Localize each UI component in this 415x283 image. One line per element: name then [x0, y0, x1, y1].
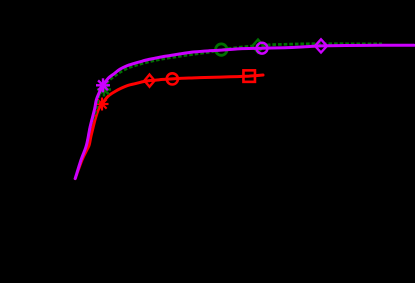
green marker: open diamond — [252, 40, 264, 53]
red marker: open square — [243, 70, 255, 82]
red marker: open circle — [167, 73, 178, 84]
purple curve — [75, 45, 414, 178]
green marker: asterisk at first data point (mostly hidden) — [97, 83, 111, 97]
green marker: open circle — [216, 44, 227, 55]
purple marker: open circle — [257, 43, 268, 54]
purple marker: open diamond — [315, 39, 327, 52]
red marker: open diamond — [144, 75, 154, 87]
green dashed curve — [75, 44, 382, 179]
purple marker: asterisk at first data point — [96, 78, 110, 92]
red curve — [75, 75, 263, 179]
red marker: asterisk at first data point — [96, 98, 109, 111]
